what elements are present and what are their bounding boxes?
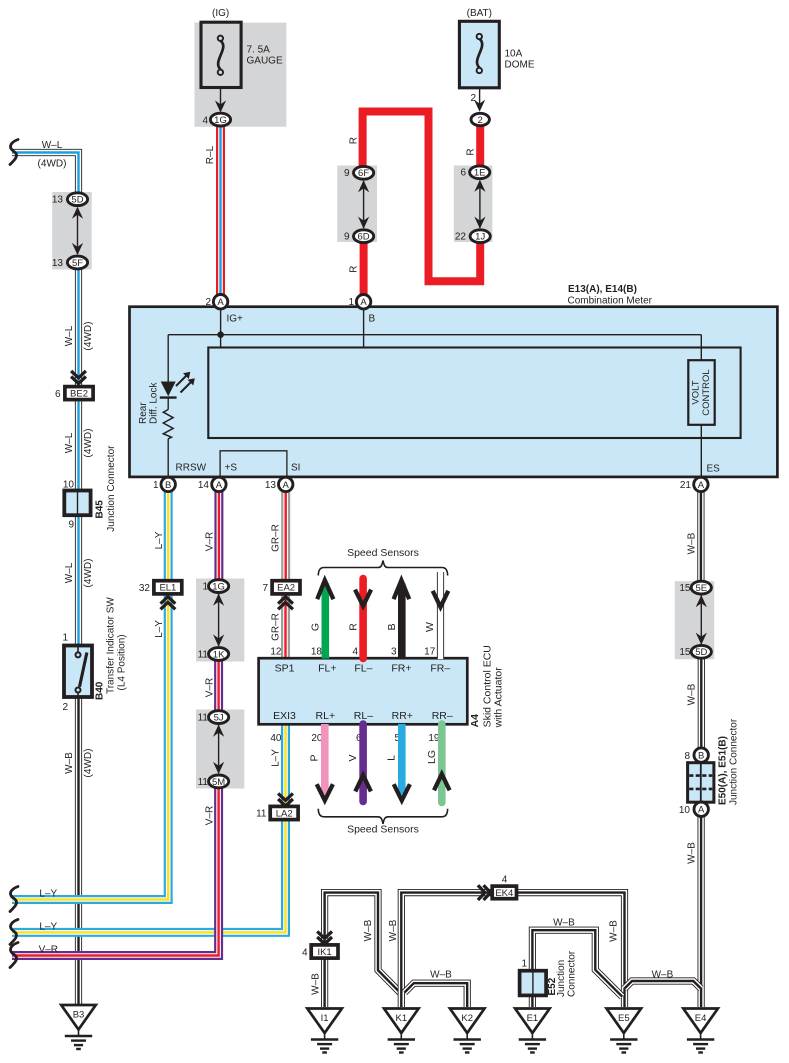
fuse (IG) 7.5A GAUGE bbox=[201, 8, 283, 126]
svg-text:4: 4 bbox=[302, 947, 308, 958]
svg-text:L–Y: L–Y bbox=[154, 620, 165, 638]
svg-text:9: 9 bbox=[344, 232, 350, 243]
connector shade (IG) fuse bbox=[195, 23, 287, 127]
svg-text:Speed Sensors: Speed Sensors bbox=[347, 547, 419, 559]
svg-text:Diff. Lock: Diff. Lock bbox=[148, 382, 159, 424]
svg-text:2: 2 bbox=[62, 702, 68, 713]
connector shade 5E/5D right bbox=[675, 581, 714, 659]
wire V-R 1K to 5J bbox=[218, 660, 220, 712]
VOLT CONTROL box bbox=[700, 335, 702, 361]
svg-text:B3: B3 bbox=[73, 1010, 85, 1021]
svg-text:A: A bbox=[217, 297, 224, 308]
wire LED to resistor bbox=[167, 398, 169, 410]
svg-text:B40: B40 bbox=[95, 681, 106, 700]
svg-text:5E: 5E bbox=[695, 583, 707, 594]
svg-text:6D: 6D bbox=[358, 232, 370, 243]
wire W-B corner to IK1 and K1 merge bbox=[325, 893, 402, 994]
wire V-R pin14 to 1G bbox=[218, 491, 220, 580]
wire W-L 5F to BE2 bbox=[78, 269, 80, 388]
wire W-B K1 up to EK4 bbox=[401, 893, 492, 1007]
double arrow 1G-1K bbox=[218, 594, 220, 646]
svg-text:3: 3 bbox=[391, 647, 397, 658]
svg-text:13: 13 bbox=[52, 195, 64, 206]
svg-text:L–Y: L–Y bbox=[271, 749, 282, 767]
svg-text:Junction Connector: Junction Connector bbox=[729, 718, 740, 805]
svg-text:4: 4 bbox=[352, 647, 358, 658]
svg-text:V–R: V–R bbox=[204, 532, 215, 551]
connector shade 6F/6D bbox=[337, 166, 377, 243]
svg-text:5D: 5D bbox=[71, 195, 83, 206]
ground I1 bbox=[307, 1009, 342, 1053]
svg-text:Junction Connector: Junction Connector bbox=[106, 445, 117, 532]
svg-text:W: W bbox=[424, 622, 436, 632]
svg-text:DOME: DOME bbox=[505, 60, 535, 71]
connector shade 5J/5M bbox=[196, 710, 244, 789]
svg-text:RR+: RR+ bbox=[392, 710, 413, 722]
LED diode bbox=[161, 382, 176, 397]
svg-text:(4WD): (4WD) bbox=[83, 429, 94, 458]
svg-text:EXI3: EXI3 bbox=[273, 710, 296, 722]
svg-text:1J: 1J bbox=[475, 232, 485, 243]
IG+ horizontal feed bbox=[168, 334, 701, 336]
svg-text:A: A bbox=[360, 297, 367, 308]
svg-text:I1: I1 bbox=[321, 1013, 329, 1024]
svg-text:8: 8 bbox=[684, 751, 690, 762]
svg-text:17: 17 bbox=[424, 647, 436, 658]
svg-text:LA2: LA2 bbox=[276, 808, 293, 819]
+S / SI bracket bbox=[220, 451, 287, 477]
svg-text:1: 1 bbox=[521, 958, 527, 969]
svg-text:R: R bbox=[466, 148, 477, 155]
node dot IG+ bbox=[217, 331, 224, 338]
svg-text:W–B: W–B bbox=[430, 970, 452, 981]
sensor wire L RR+ bbox=[398, 724, 406, 795]
cut mark W-L top left bbox=[10, 140, 18, 165]
svg-text:(L4 Position): (L4 Position) bbox=[116, 634, 127, 690]
svg-text:Junction: Junction bbox=[556, 960, 567, 997]
svg-text:K1: K1 bbox=[395, 1013, 407, 1024]
ground E1 bbox=[515, 1009, 550, 1053]
svg-text:4: 4 bbox=[202, 115, 208, 126]
wire R: BAT oval2 to 1E bbox=[476, 126, 484, 167]
svg-text:FR+: FR+ bbox=[391, 663, 411, 675]
ground E5 bbox=[607, 1009, 642, 1053]
svg-text:W–B: W–B bbox=[553, 918, 575, 929]
svg-text:5F: 5F bbox=[72, 258, 83, 269]
svg-text:GAUGE: GAUGE bbox=[247, 56, 283, 67]
svg-text:14: 14 bbox=[198, 480, 210, 491]
speed sensors brace bottom bbox=[318, 809, 447, 824]
wire W-B EK4 to E5 bbox=[516, 893, 624, 1007]
svg-text:SP1: SP1 bbox=[275, 663, 295, 675]
svg-text:5M: 5M bbox=[212, 777, 225, 788]
svg-text:(BAT): (BAT) bbox=[467, 8, 492, 19]
sensor wire V RL- bbox=[359, 724, 367, 802]
wire R: 6D to meter pin B bbox=[360, 242, 368, 295]
chevrons above IK1 bbox=[317, 931, 332, 944]
svg-text:10: 10 bbox=[679, 805, 691, 816]
svg-text:A: A bbox=[698, 480, 705, 491]
rear diff lock LED branch bbox=[167, 335, 169, 382]
wire W-B ES pin to 5E bbox=[700, 491, 702, 582]
ground K2 bbox=[450, 1009, 485, 1053]
svg-text:A: A bbox=[283, 480, 290, 491]
double arrow 5J-5M bbox=[218, 725, 220, 773]
svg-text:7: 7 bbox=[262, 583, 268, 594]
double arrow 5D-5F bbox=[77, 208, 79, 254]
ground K1 bbox=[384, 1009, 419, 1053]
svg-text:R: R bbox=[349, 137, 360, 144]
svg-text:Rear: Rear bbox=[138, 402, 149, 424]
svg-text:ES: ES bbox=[707, 463, 721, 474]
svg-text:R: R bbox=[347, 623, 359, 631]
svg-text:9: 9 bbox=[344, 168, 350, 179]
sensor wire P RL+ bbox=[321, 724, 329, 795]
svg-text:EA2: EA2 bbox=[277, 583, 295, 594]
svg-text:with Actuator: with Actuator bbox=[493, 667, 505, 729]
svg-text:GR–R: GR–R bbox=[271, 524, 282, 552]
junction connector E50(A) E51(B) bbox=[688, 763, 714, 803]
connector shade 1E/1J bbox=[454, 166, 493, 243]
chevrons above LA2 bbox=[278, 793, 293, 806]
svg-text:L–Y: L–Y bbox=[39, 921, 57, 932]
svg-text:W–B: W–B bbox=[311, 973, 322, 995]
svg-text:V–R: V–R bbox=[204, 806, 215, 825]
svg-text:11: 11 bbox=[256, 809, 267, 820]
svg-text:W–B: W–B bbox=[363, 919, 374, 941]
svg-text:13: 13 bbox=[52, 258, 64, 269]
svg-text:1G: 1G bbox=[214, 115, 227, 126]
svg-text:FL+: FL+ bbox=[318, 663, 336, 675]
double arrow 5E-5D bbox=[700, 596, 702, 645]
svg-text:11: 11 bbox=[198, 777, 209, 788]
wire GR-R EA2 to ECU SP1 bbox=[285, 594, 287, 660]
svg-text:A: A bbox=[216, 480, 223, 491]
svg-text:W–L: W–L bbox=[64, 325, 75, 346]
svg-text:VOLT: VOLT bbox=[691, 380, 702, 404]
svg-text:10A: 10A bbox=[505, 49, 523, 60]
cut mark L-Y 1 bbox=[10, 887, 18, 912]
svg-text:B: B bbox=[698, 751, 704, 762]
wire V-R 5M to bottom left edge bbox=[12, 787, 219, 955]
svg-text:21: 21 bbox=[680, 480, 692, 491]
svg-text:22: 22 bbox=[455, 232, 467, 243]
svg-text:R: R bbox=[349, 266, 360, 273]
svg-text:W–L: W–L bbox=[42, 140, 63, 151]
svg-text:A4: A4 bbox=[469, 714, 481, 728]
svg-text:1E: 1E bbox=[474, 168, 486, 179]
connector shade 5D/5F bbox=[52, 192, 91, 270]
wire GR-R pin13 to EA2 bbox=[285, 491, 287, 581]
svg-text:K2: K2 bbox=[461, 1013, 473, 1024]
svg-text:2: 2 bbox=[205, 297, 211, 308]
svg-text:7. 5A: 7. 5A bbox=[247, 45, 271, 56]
ECU A4 box bbox=[259, 658, 468, 724]
svg-text:4: 4 bbox=[502, 875, 508, 886]
svg-text:5J: 5J bbox=[214, 713, 224, 724]
svg-text:B: B bbox=[165, 480, 171, 491]
svg-text:2: 2 bbox=[478, 115, 483, 126]
svg-text:IK1: IK1 bbox=[317, 947, 331, 958]
wire W-B E5 to E4 tie bbox=[625, 981, 701, 989]
sensor wire LG RR- bbox=[438, 724, 446, 803]
svg-text:15: 15 bbox=[679, 583, 691, 594]
IG+ lead bbox=[220, 307, 222, 348]
svg-text:18: 18 bbox=[311, 647, 323, 658]
svg-text:11: 11 bbox=[198, 713, 209, 724]
svg-text:1G: 1G bbox=[212, 582, 225, 593]
sensor wire B FR+ bbox=[398, 584, 406, 659]
wire W-L horizontal+down to 5D bbox=[12, 153, 79, 194]
svg-text:40: 40 bbox=[270, 733, 282, 744]
svg-text:12: 12 bbox=[270, 647, 282, 658]
svg-text:B: B bbox=[369, 314, 376, 325]
svg-text:RRSW: RRSW bbox=[176, 462, 207, 473]
sensor wire R FL- bbox=[359, 579, 367, 659]
cut mark V-R bbox=[10, 943, 18, 968]
wire W-B IK1 to I1 bbox=[324, 958, 326, 1007]
double arrow 1E-1J bbox=[479, 181, 481, 228]
svg-text:CONTROL: CONTROL bbox=[701, 369, 712, 415]
wire W-B K2 tie to K1 bbox=[405, 983, 468, 1007]
wire W-L B45 to B40 bbox=[78, 515, 80, 646]
svg-text:BE2: BE2 bbox=[70, 389, 88, 400]
svg-text:Connector: Connector bbox=[566, 950, 577, 997]
svg-text:L–Y: L–Y bbox=[39, 889, 57, 900]
sensor wire W FR- bbox=[440, 572, 442, 659]
double arrow 6F-6D bbox=[363, 181, 365, 228]
wire resistor to RRSW pin bbox=[167, 439, 169, 477]
svg-text:5D: 5D bbox=[695, 647, 707, 658]
svg-text:V: V bbox=[347, 754, 359, 761]
wire W-B E52 up/over to E5 bbox=[532, 930, 622, 997]
inner logic rectangle bbox=[208, 348, 740, 439]
svg-text:W–B: W–B bbox=[388, 919, 399, 941]
B lead bbox=[363, 307, 365, 348]
ground B3 bbox=[61, 1005, 96, 1049]
wire L-Y pin B to EL1 bbox=[167, 491, 169, 581]
svg-text:Transfer Indicator SW: Transfer Indicator SW bbox=[106, 597, 117, 694]
ground E4 bbox=[683, 1009, 718, 1053]
svg-text:GR–R: GR–R bbox=[271, 613, 282, 641]
svg-text:9: 9 bbox=[68, 519, 74, 530]
svg-text:11: 11 bbox=[198, 649, 209, 660]
svg-text:E1: E1 bbox=[527, 1013, 539, 1024]
svg-text:R–L: R–L bbox=[205, 145, 216, 164]
chevrons below EL1 bbox=[161, 597, 176, 610]
wire W-B B40 to B3 bbox=[78, 697, 80, 1007]
svg-text:W–L: W–L bbox=[64, 432, 75, 453]
wire L-Y pin40 to LA2 bbox=[285, 724, 287, 808]
svg-text:6: 6 bbox=[55, 389, 61, 400]
svg-text:L–Y: L–Y bbox=[154, 531, 165, 549]
connector shade 1G/1K bbox=[196, 579, 244, 662]
svg-text:W–B: W–B bbox=[652, 970, 674, 981]
svg-text:RL+: RL+ bbox=[316, 710, 336, 722]
svg-text:W–B: W–B bbox=[686, 532, 697, 554]
wire W-B E52 to E1 bbox=[531, 995, 533, 1007]
chevrons before EK4 bbox=[478, 885, 491, 900]
svg-text:W–B: W–B bbox=[686, 683, 697, 705]
cut mark L-Y 2 bbox=[10, 919, 18, 944]
LED emission arrows bbox=[176, 376, 187, 387]
svg-text:(4WD): (4WD) bbox=[83, 322, 94, 351]
svg-text:E50(A), E51(B): E50(A), E51(B) bbox=[718, 736, 729, 805]
svg-text:6F: 6F bbox=[358, 168, 369, 179]
svg-text:SI: SI bbox=[291, 462, 300, 473]
svg-text:EL1: EL1 bbox=[159, 583, 176, 594]
svg-text:V–R: V–R bbox=[39, 945, 58, 956]
svg-text:V–R: V–R bbox=[204, 678, 215, 697]
svg-text:B45: B45 bbox=[95, 500, 106, 519]
chevrons below EA2 bbox=[278, 597, 293, 610]
chevrons above BE2 bbox=[71, 371, 86, 384]
svg-text:13: 13 bbox=[265, 480, 277, 491]
svg-text:(4WD): (4WD) bbox=[38, 158, 67, 169]
wire W-L BE2 to B45 bbox=[78, 399, 80, 491]
wire L-Y LA2 to bottom left edge bbox=[12, 818, 286, 933]
svg-text:FL–: FL– bbox=[354, 663, 372, 675]
svg-text:1: 1 bbox=[348, 297, 354, 308]
svg-text:W–B: W–B bbox=[609, 920, 620, 942]
svg-text:W–L: W–L bbox=[64, 562, 75, 583]
svg-text:L: L bbox=[386, 755, 398, 761]
svg-text:(4WD): (4WD) bbox=[83, 749, 94, 778]
wire W-B pin A E51 to E4 ground bbox=[700, 816, 702, 1007]
svg-text:P: P bbox=[308, 754, 320, 761]
resistor bbox=[163, 410, 173, 439]
svg-text:LG: LG bbox=[426, 750, 438, 764]
svg-text:32: 32 bbox=[139, 583, 151, 594]
svg-text:+S: +S bbox=[225, 462, 238, 473]
svg-text:15: 15 bbox=[679, 647, 691, 658]
svg-text:W–B: W–B bbox=[686, 842, 697, 864]
svg-text:1K: 1K bbox=[213, 649, 225, 660]
wire W-B 5D to pin B E50 bbox=[700, 658, 702, 749]
svg-text:6: 6 bbox=[460, 168, 466, 179]
svg-text:IG+: IG+ bbox=[227, 314, 244, 325]
combination meter E13(A) E14(B) box bbox=[130, 307, 778, 477]
svg-text:1: 1 bbox=[62, 633, 68, 644]
fuse (BAT) 10A DOME bbox=[459, 8, 534, 126]
sensor wire G FL+ bbox=[321, 584, 329, 659]
svg-text:E5: E5 bbox=[618, 1013, 630, 1024]
svg-text:A: A bbox=[698, 805, 705, 816]
svg-text:B: B bbox=[386, 623, 398, 630]
svg-text:EK4: EK4 bbox=[495, 888, 513, 899]
wire R: 1J loop to 6F bbox=[363, 112, 481, 282]
svg-text:FR–: FR– bbox=[430, 663, 450, 675]
wire L-Y EL1 to bottom left edge bbox=[12, 594, 168, 900]
svg-text:Combination Meter: Combination Meter bbox=[568, 295, 653, 306]
svg-text:(4WD): (4WD) bbox=[83, 559, 94, 588]
svg-text:(IG): (IG) bbox=[212, 8, 229, 19]
svg-text:W–B: W–B bbox=[64, 752, 75, 774]
svg-text:E4: E4 bbox=[695, 1013, 707, 1024]
svg-text:1: 1 bbox=[153, 480, 159, 491]
wire R-L IG fuse to meter pin bbox=[220, 126, 222, 295]
svg-text:E13(A), E14(B): E13(A), E14(B) bbox=[568, 284, 637, 295]
svg-text:Speed Sensors: Speed Sensors bbox=[347, 824, 419, 836]
svg-text:G: G bbox=[309, 623, 321, 631]
